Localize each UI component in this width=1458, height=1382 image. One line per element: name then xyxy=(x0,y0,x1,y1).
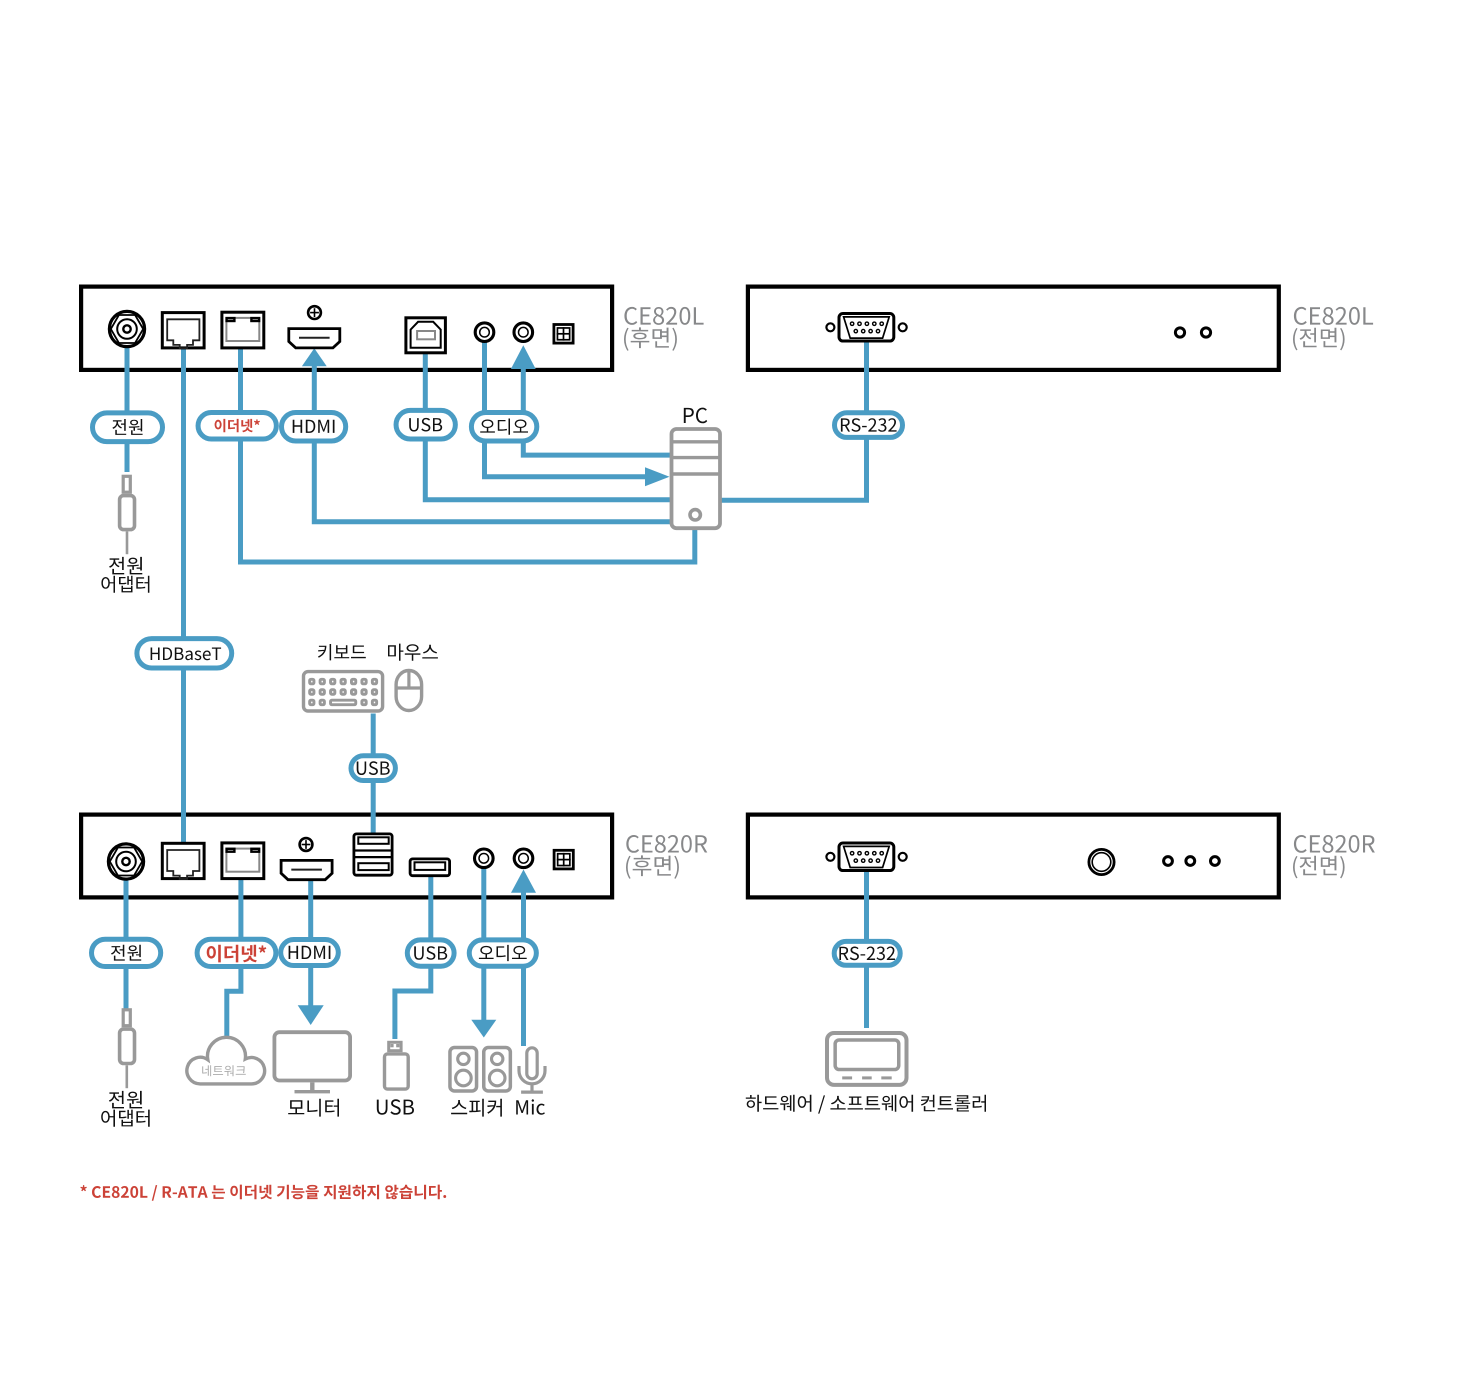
text (후면) top-left xyxy=(624,327,677,350)
wire audio jack1 to speakers xyxy=(481,866,486,1021)
text 전원 pill bottom xyxy=(111,945,141,961)
text CE820R xyxy=(626,835,707,853)
keyboard icon xyxy=(304,672,383,711)
arrowhead down into monitor xyxy=(298,1005,324,1025)
power adapter icon (top) xyxy=(123,476,130,492)
text HDMI pill bottom xyxy=(289,946,331,959)
device box CE820L front panel xyxy=(748,287,1279,370)
text 마우스 xyxy=(388,644,438,661)
network cloud icon xyxy=(187,1037,265,1084)
microphone icon xyxy=(527,1048,537,1079)
label pill 전원 (bottom) xyxy=(92,939,161,966)
arrowhead up into HDMI port (top) xyxy=(302,348,327,366)
text PC xyxy=(684,408,707,424)
text Mic xyxy=(516,1099,545,1115)
arrowhead up into audio jack (bottom) xyxy=(511,870,536,893)
audio jack 2 (CE820L rear) xyxy=(514,323,533,342)
DC power jack (CE820R rear) xyxy=(108,844,143,879)
device box CE820R front panel xyxy=(748,815,1279,898)
HDMI port (CE820L rear) xyxy=(289,329,340,348)
label pill 오디오 (top) xyxy=(471,413,536,442)
LED 2 (CE820L front) xyxy=(1201,328,1210,337)
label pill USB (top) xyxy=(396,410,455,439)
text 네트워크 xyxy=(202,1065,246,1076)
RJ45 HDBaseT port (CE820L rear) xyxy=(162,313,204,348)
text 키보드 xyxy=(318,644,366,660)
wire audio jack1 to PC arrow (top) xyxy=(485,342,647,477)
label pill HDMI (top) xyxy=(282,413,346,442)
text 하드웨어 / 소프트웨어 컨트롤러 xyxy=(746,1095,986,1114)
wire HDMI to monitor xyxy=(308,876,313,1006)
wire audio jack2 to mic xyxy=(521,888,526,1046)
text 오디오 pill bottom xyxy=(479,945,527,961)
HDMI screw (CE820L rear) xyxy=(308,306,321,319)
text 어댑터 adapter bottom xyxy=(101,1110,150,1127)
wire HDBaseT link xyxy=(181,348,186,847)
label pill 이더넷* (bottom) xyxy=(197,939,276,966)
DB9 RS-232 connector (CE820R front) xyxy=(826,853,834,861)
text CE820L xyxy=(624,307,703,325)
arrowhead right into PC xyxy=(645,467,670,486)
text CE820R front xyxy=(1294,835,1375,853)
wire HDMI to PC (top) xyxy=(314,362,672,522)
text USB pill bottom xyxy=(414,946,447,960)
RJ45 ethernet port (CE820R rear) xyxy=(222,843,264,879)
text CE820L front xyxy=(1294,307,1373,325)
text HDBaseT pill xyxy=(151,648,222,661)
LED 2 (CE820R front) xyxy=(1186,857,1195,866)
LED 3 (CE820R front) xyxy=(1211,857,1220,866)
text USB pill top xyxy=(409,418,442,432)
LED 1 (CE820R front) xyxy=(1164,857,1173,866)
speaker right xyxy=(484,1048,511,1091)
arrowhead up into audio jack (top) xyxy=(511,345,536,369)
USB-B port (CE820L rear) xyxy=(406,318,446,353)
DC power jack (CE820L rear) xyxy=(109,311,144,346)
HDMI screw (CE820R rear) xyxy=(300,838,313,851)
label pill RS-232 (bottom) xyxy=(834,941,900,965)
text 어댑터 adapter top xyxy=(101,576,149,593)
wire ethernet top loop PC xyxy=(241,348,695,562)
RJ45 ethernet port (CE820L rear) xyxy=(222,312,264,348)
text 전원 pill top xyxy=(112,419,142,435)
LED 1 (CE820L front) xyxy=(1175,328,1184,337)
text HDMI pill top xyxy=(293,420,335,433)
text 전원 adapter bottom xyxy=(109,1091,142,1109)
wire audio jack2 to PC (top) xyxy=(523,367,672,455)
text footnote xyxy=(80,1185,446,1201)
text USB flash xyxy=(377,1099,414,1115)
text RS-232 pill top xyxy=(841,418,897,432)
text (전면) top-right xyxy=(1293,328,1345,351)
HDMI port (CE820R rear) xyxy=(281,860,332,879)
terminal block (CE820L rear) xyxy=(554,325,573,344)
power adapter icon (bottom) xyxy=(123,1010,130,1026)
label pill RS-232 (top) xyxy=(835,413,903,438)
wire keyboard-mouse USB xyxy=(371,714,376,839)
wire power to adapter (bottom) xyxy=(124,877,129,1009)
wire USB to flash drive xyxy=(395,876,431,1039)
push button (CE820R front) xyxy=(1089,849,1114,874)
dual USB-A ports (CE820R rear) xyxy=(354,834,392,875)
label pill 이더넷* (top) xyxy=(198,413,276,440)
wire RS-232 to PC (top) xyxy=(721,342,867,500)
label pill USB (bottom) xyxy=(407,940,454,966)
text 이더넷* pill bottom xyxy=(207,945,267,963)
monitor icon xyxy=(274,1032,350,1080)
label pill HDMI (bottom) xyxy=(281,940,339,966)
RJ45 HDBaseT port (CE820R rear) xyxy=(162,843,204,878)
wire power to adapter (top) xyxy=(125,346,130,472)
arrowhead down into speakers xyxy=(471,1020,496,1038)
label pill 전원 (top) xyxy=(93,413,163,442)
wire RS-232 to controller xyxy=(864,871,869,1028)
label pill USB (middle) xyxy=(351,756,395,781)
audio jack 1 (CE820L rear) xyxy=(475,323,494,342)
label pill HDBaseT xyxy=(137,639,232,668)
mouse icon xyxy=(396,671,422,711)
device box CE820L rear panel xyxy=(81,287,612,370)
text 이더넷* pill top xyxy=(215,419,260,432)
wire USB to PC (top) xyxy=(425,352,672,500)
DB9 RS-232 connector (CE820L front) xyxy=(826,323,834,331)
device box CE820R rear panel xyxy=(81,815,612,898)
text RS-232 pill bottom xyxy=(839,947,895,961)
speaker left xyxy=(450,1048,477,1091)
USB flash drive icon xyxy=(389,1042,401,1050)
text 오디오 pill top xyxy=(480,419,528,435)
terminal block (CE820R rear) xyxy=(554,850,573,869)
USB-A port (CE820R rear) xyxy=(410,859,450,876)
text 모니터 xyxy=(288,1099,339,1117)
text (전면) bottom-right xyxy=(1293,856,1345,879)
PC tower icon xyxy=(672,429,721,528)
text (후면) bottom-left xyxy=(626,855,679,878)
wire ethernet to network cloud xyxy=(227,877,241,1039)
audio jack 1 (CE820R rear) xyxy=(475,849,494,868)
text 전원 adapter top xyxy=(109,557,142,575)
audio jack 2 (CE820R rear) xyxy=(514,849,533,868)
controller icon xyxy=(827,1033,907,1085)
text 스피커 xyxy=(451,1099,502,1117)
label pill 오디오 (bottom) xyxy=(469,940,536,966)
text USB pill middle xyxy=(357,761,390,775)
